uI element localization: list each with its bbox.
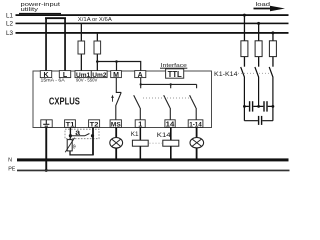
wire L2 bus [16,23,289,25]
fuse F1 [78,41,85,54]
controller CXPLUS box [33,71,212,128]
wire A common bar [141,78,197,85]
contactor contact pole3 [269,67,273,121]
contact a [70,134,89,136]
terminal 1 [135,120,145,128]
junction dot cap row phase3 [272,105,275,108]
terminal 14 [165,120,175,128]
wire Um1 tap from L2 [81,24,82,71]
wire T2 down [92,127,94,155]
wire load phase 1 [244,15,245,67]
terminal T1 [65,120,76,128]
svg-text:TTL: TTL [168,69,182,79]
relay contact 1-14 (internal) [190,84,197,119]
load arrow [254,6,286,12]
junction dot cap row phase1 [243,105,246,108]
junction dot L3 tap [271,31,274,34]
junction dot T1 branch [69,134,72,137]
terminal MS [110,120,121,128]
wire L1 bus [16,14,289,16]
junction dot L2 tap [257,22,260,25]
wire branch Um2 to M and A [97,62,140,71]
earth symbol [43,120,49,126]
svg-text:M: M [113,72,119,79]
wire coil K14 to N [170,146,172,159]
wire capacitor row 2 [244,120,273,122]
dotted link between internal contacts [143,97,193,99]
lamp H1 [110,138,123,149]
svg-text:utility: utility [21,7,39,13]
alarm trip arrow [111,95,114,98]
contactor contact pole2 [255,67,259,106]
svg-text:PE: PE [8,166,16,172]
dotted link K1-K14 [150,142,163,144]
wire 14 to coil K14 [170,127,172,140]
dashed box a (external contact option) [65,129,99,139]
junction dot cap row phase2 [257,105,260,108]
wire 1 to coil K1 [140,127,142,140]
lamp H2 [190,138,204,148]
wire capacitor row 1 [244,105,273,107]
svg-text:90V - 550V: 90V - 550V [76,77,97,82]
terminal A [135,71,146,78]
current transformer X on L1 (staple) [45,17,66,19]
coil K1 [132,140,148,146]
fuse F4 [255,41,262,57]
junction dot earth-PE [45,169,48,172]
svg-text:1: 1 [138,120,142,129]
wire Um2 tap from L3 [97,33,98,71]
junction dot at M drop [115,60,118,63]
wire CT l to terminal L [64,19,66,71]
terminal 1-14 [188,120,203,128]
contactor contact K1-K14 pole1 [241,67,245,121]
svg-text:CXPLUS: CXPLUS [49,97,80,108]
junction dot bar-1 [140,83,142,85]
svg-text:K14: K14 [157,132,171,139]
wire lamp H1 to N [115,148,117,159]
fuse F3 [241,41,248,57]
coil K14 [163,140,179,146]
svg-text:L3: L3 [6,30,14,37]
junction dot bar-14 [170,83,172,85]
wire lamp H2 to N [196,148,198,159]
svg-text:15mA - 6A: 15mA - 6A [41,77,65,82]
wire CT k to terminal K [45,19,47,71]
svg-text:load: load [256,2,271,8]
wire L3 bus [16,32,289,34]
wire T1 down [70,127,71,139]
terminal L [59,71,70,78]
fuse F2 [94,41,101,54]
alarm contact from M (internal) [116,78,121,93]
wire PE bus [17,170,290,172]
wire earth to PE [45,127,47,170]
svg-text:K1-K14: K1-K14 [214,71,238,78]
relay contact 14 (internal) [164,84,171,119]
terminal T2 [89,120,100,128]
terminal TTL [166,69,184,78]
dotted link contactor poles [238,72,270,74]
fuse F5 [269,41,276,57]
wire N bus [17,158,289,161]
capacitor C2 plates [263,101,264,111]
terminal Um1 [75,71,91,78]
junction dot a-T2 [91,134,94,137]
svg-text:1-14: 1-14 [189,122,202,129]
wire thermistor loop [70,151,93,155]
svg-text:T2: T2 [90,122,99,129]
svg-text:A: A [138,72,143,79]
wire drop to M [116,62,117,71]
wire load phase 3 [272,33,273,67]
terminal K [40,71,51,78]
wire coil K1 to N [140,146,142,159]
terminal earth [41,120,52,128]
svg-text:K1: K1 [131,131,139,138]
wire 1-14 to lamp [196,127,198,137]
capacitor C1 plates [249,101,250,111]
terminal Um2 [91,71,107,78]
svg-text:X/1A or X/6A: X/1A or X/6A [78,17,113,23]
junction dot L1 tap [243,14,246,17]
wire MS to lamp [115,127,117,137]
wire load phase 2 [258,24,259,67]
svg-text:L1: L1 [6,12,14,19]
relay contact 1 (internal) [134,84,141,119]
terminal M [111,71,122,78]
thermistor sensor [67,140,72,151]
junction dot at fuse branch [96,60,99,63]
svg-text:L2: L2 [6,20,14,27]
capacitor C3 plates [258,116,259,125]
svg-text:ϑ: ϑ [73,144,76,150]
svg-text:N: N [8,158,12,164]
